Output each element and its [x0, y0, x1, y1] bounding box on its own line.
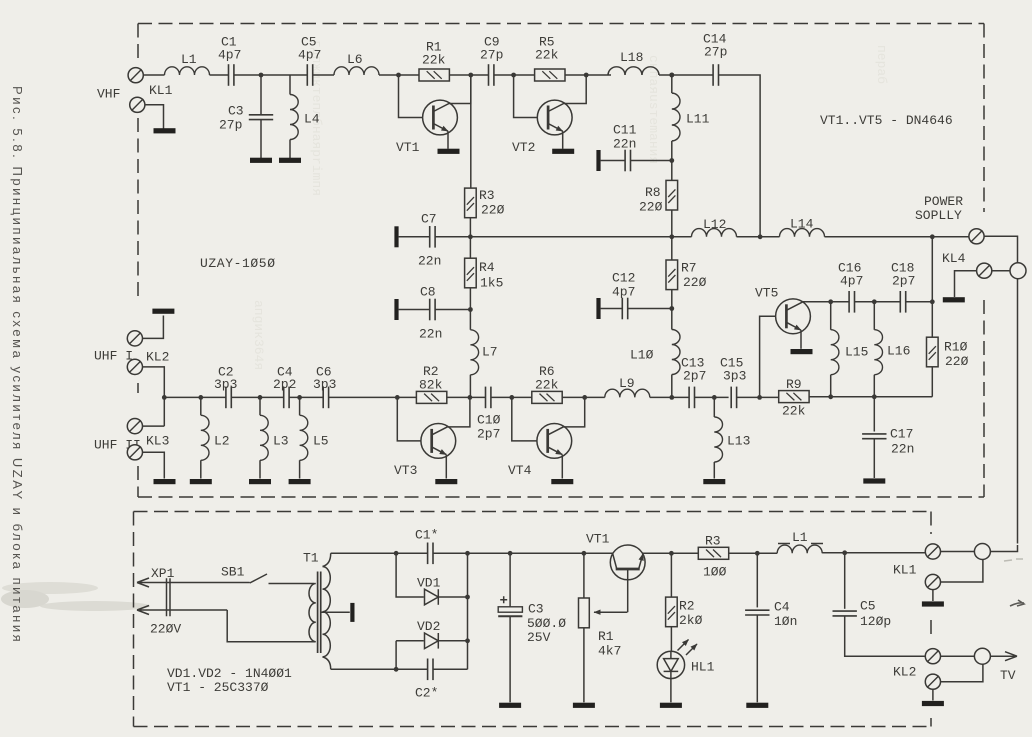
wire L3 leads — [259, 397, 261, 478]
svg-text:22Ø: 22Ø — [481, 203, 505, 218]
wire L4 to ground — [289, 140, 291, 159]
bleed-through ghost text artifacts — [251, 40, 889, 370]
svg-text:L1: L1 — [792, 530, 808, 545]
capacitor C4 10n shunt — [745, 610, 769, 615]
node bridge left top — [394, 551, 399, 556]
svg-text:1ØØ: 1ØØ — [703, 565, 727, 580]
svg-text:UZAY-1Ø5Ø: UZAY-1Ø5Ø — [200, 256, 276, 271]
svg-text:C11: C11 — [613, 123, 637, 138]
node mid rail R3/R4 — [468, 234, 473, 239]
svg-text:VT1: VT1 — [586, 532, 610, 547]
wire bar to C12 — [601, 308, 623, 310]
potentiometer R1 4k7 — [579, 598, 590, 628]
svg-text:R3: R3 — [479, 188, 495, 203]
node L15 bottom — [828, 394, 833, 399]
svg-text:VHF: VHF — [97, 87, 120, 102]
wire C5 down to KL2 row — [845, 616, 925, 656]
T1 secondary bottom lead — [323, 657, 331, 669]
svg-text:22Ø: 22Ø — [945, 354, 969, 369]
wire VT5 base — [760, 316, 776, 397]
connector KL1 pin1 — [925, 544, 940, 559]
inductor L6 — [334, 67, 379, 75]
switch SB1 blade — [250, 574, 267, 583]
plug XP1 body bars — [167, 578, 171, 616]
svg-text:2p2: 2p2 — [273, 377, 296, 392]
wire VT4 emitter — [548, 447, 563, 455]
wire KL1-1 to plug — [941, 551, 975, 553]
svg-text:KL1: KL1 — [149, 83, 173, 98]
wire KL2-2 to ground — [932, 689, 934, 700]
plug circle at KL4 — [1010, 263, 1026, 279]
wire L10 leads — [671, 309, 673, 398]
node R1 — [582, 551, 587, 556]
resistor R4 1k5 — [465, 258, 477, 288]
connector KL4 pin1 — [969, 229, 984, 244]
svg-text:SOPLLY: SOPLLY — [915, 208, 962, 223]
inductor L1 — [165, 67, 210, 75]
capacitor C1* — [428, 543, 433, 565]
inductor L1 (PS) — [777, 545, 822, 553]
resistor R2 82k — [416, 391, 446, 403]
svg-text:12Øp: 12Øp — [860, 614, 891, 629]
ground L2 — [190, 479, 212, 484]
connector KL2 pin2 — [127, 359, 142, 374]
inductor L9 — [605, 389, 650, 397]
wire VT3 collector — [432, 397, 470, 435]
inductor L4 — [290, 95, 298, 140]
capacitor C10 2p7 — [486, 387, 491, 409]
resistor R2 2k0 — [666, 597, 678, 627]
connector KL2 pin1 — [925, 649, 940, 664]
svg-text:KL4: KL4 — [942, 251, 966, 266]
node C8/L7 — [468, 307, 473, 312]
node C5 — [842, 550, 847, 555]
capacitor C18 2p7 — [900, 291, 905, 313]
wire left column to VD1 row — [396, 553, 424, 597]
svg-text:22Ø: 22Ø — [683, 275, 707, 290]
wire L18 to C14 — [659, 74, 713, 76]
wire plug to right edge riser — [990, 545, 1017, 552]
wire HL1 to ground — [670, 679, 672, 703]
svg-text:VT1 - 25C337Ø: VT1 - 25C337Ø — [167, 680, 269, 695]
svg-text:VT3: VT3 — [394, 463, 417, 478]
wire R10 column — [931, 237, 933, 397]
capacitor C8 22n — [430, 299, 435, 321]
wire L15 leads — [830, 302, 832, 397]
svg-text:2p7: 2p7 — [477, 427, 500, 442]
node bridge left bottom — [394, 667, 399, 672]
svg-text:KL3: KL3 — [146, 434, 169, 449]
wire VD1 to right column — [438, 596, 467, 598]
resistor R1 22k — [419, 69, 449, 81]
svg-text:C4: C4 — [774, 600, 790, 615]
terminal bar C12 — [596, 298, 600, 319]
wire bar to C11 — [601, 160, 626, 162]
svg-text:22k: 22k — [535, 48, 559, 63]
node R2/L7/VT3 collector — [468, 395, 473, 400]
wire KL2-2 up to plug — [941, 664, 983, 681]
svg-text:KL2: KL2 — [146, 350, 169, 365]
svg-text:L16: L16 — [887, 344, 910, 359]
mid rail L14 to KL4 — [825, 236, 969, 238]
wire KL3-1 — [143, 425, 165, 427]
wire KL2-2 to rail / KL3-1 riser — [143, 367, 165, 426]
ground KL1-2 — [154, 128, 176, 133]
capacitor C2 3p3 — [226, 387, 231, 409]
ground KL3-2 — [154, 479, 176, 484]
inductor L5 — [300, 415, 308, 460]
wire R8 leads — [671, 161, 673, 237]
wire SB1 to T1 primary — [269, 583, 315, 585]
node C11/L11/R8 — [669, 158, 674, 163]
node right column VD2 — [465, 638, 470, 643]
wire KL1-1 to L1 — [143, 74, 164, 76]
ground KL2-1 (above) — [152, 309, 174, 314]
scan dashes right of KL1 — [1004, 559, 1023, 561]
svg-text:4p7: 4p7 — [298, 48, 321, 63]
node C18/R10 — [930, 299, 935, 304]
connector KL1 pin1 VHF — [128, 68, 143, 83]
connector KL3 pin1 UHF II — [127, 419, 142, 434]
T1 secondary winding — [323, 567, 331, 657]
capacitor C1 4p7 — [229, 64, 234, 86]
svg-text:POWER: POWER — [924, 194, 963, 209]
wire R5 to L18 — [565, 74, 611, 76]
amplifier block dashed border top — [138, 23, 984, 25]
svg-text:Рис. 5.8. Принципиальная схема: Рис. 5.8. Принципиальная схема усилителя… — [10, 86, 25, 644]
wire VT1 collector diag — [613, 553, 617, 569]
node VT3 base — [395, 395, 400, 400]
wire R2 to HL1 — [670, 627, 672, 652]
power block dashed border left — [133, 512, 135, 727]
svg-text:27p: 27p — [480, 48, 503, 63]
svg-text:R1: R1 — [598, 629, 614, 644]
wire VT3 emitter — [432, 447, 447, 455]
wire VT5 emitter — [786, 322, 801, 330]
wire VT2 emitter — [548, 124, 563, 132]
wire KL2-1 to plug — [941, 655, 975, 657]
T1 core — [318, 572, 321, 654]
svg-text:82k: 82k — [419, 378, 443, 393]
svg-text:4p7: 4p7 — [840, 274, 863, 289]
capacitor C3 27p shunt — [249, 115, 273, 120]
node L3 — [258, 395, 263, 400]
wire C8 to R4 node — [435, 309, 470, 311]
transistor VT4 — [537, 424, 572, 459]
wire KL1-2 to ground — [145, 105, 164, 129]
T1 primary winding — [309, 584, 316, 642]
wire bar to C7 — [399, 236, 430, 238]
wire L4 branch — [289, 75, 291, 95]
node right column top — [465, 551, 470, 556]
svg-text:L7: L7 — [482, 345, 498, 360]
node L10 bottom — [669, 395, 674, 400]
svg-text:3p3: 3p3 — [214, 377, 237, 392]
ground VT4 — [551, 479, 573, 484]
rail C2 to C4 — [231, 396, 283, 398]
capacitor C3 top plate — [498, 607, 522, 612]
svg-text:22k: 22k — [422, 53, 446, 68]
wire R1 to C9 — [449, 74, 488, 76]
ground C17 — [863, 478, 885, 483]
svg-text:C12: C12 — [612, 271, 635, 286]
inductor L14 — [780, 229, 825, 237]
svg-text:C17: C17 — [890, 427, 913, 442]
ground C4 — [746, 703, 768, 708]
wire VT4 collector — [548, 397, 585, 435]
svg-text:VT4: VT4 — [508, 463, 532, 478]
svg-text:L18: L18 — [620, 50, 643, 65]
svg-text:C5: C5 — [860, 599, 876, 614]
svg-text:27p: 27p — [704, 45, 727, 60]
resistor R7 220 — [666, 260, 678, 290]
svg-text:C7: C7 — [421, 212, 437, 227]
PS bottom rail — [331, 668, 468, 670]
resistor R3 100 — [698, 547, 728, 559]
wire VT4 base — [512, 397, 537, 441]
svg-text:L14: L14 — [790, 217, 814, 232]
svg-text:VT1: VT1 — [396, 140, 420, 155]
capacitor C12 4p7 — [622, 298, 627, 320]
capacitor C7 22n — [430, 226, 435, 248]
svg-text:R9: R9 — [786, 377, 802, 392]
wire R3 to mid rail — [469, 218, 471, 237]
svg-text:C3: C3 — [228, 104, 244, 119]
inductor L16 — [874, 330, 882, 375]
node R10 top — [930, 234, 935, 239]
svg-text:C8: C8 — [420, 285, 436, 300]
svg-text:1Øn: 1Øn — [774, 614, 797, 629]
wire prong2 to T1 primary bottom — [227, 610, 315, 642]
svg-text:L12: L12 — [703, 217, 726, 232]
ground VT1 — [438, 149, 460, 154]
collector row C16/C18 — [831, 301, 933, 303]
diode VD1 — [425, 589, 439, 605]
svg-text:27p: 27p — [219, 118, 242, 133]
svg-text:22k: 22k — [535, 378, 559, 393]
wire C4 top lead — [756, 553, 758, 607]
node VT5 base riser — [757, 395, 762, 400]
svg-text:22n: 22n — [418, 254, 441, 269]
T1 secondary top lead — [323, 553, 331, 566]
wire C12 to node — [628, 308, 672, 310]
svg-text:VT2: VT2 — [512, 140, 535, 155]
wire C3 top lead — [509, 553, 511, 606]
inductor L2 — [201, 415, 209, 460]
wire R1 top lead — [583, 553, 585, 598]
svg-text:R1Ø: R1Ø — [944, 340, 968, 355]
ground VT3 — [435, 479, 457, 484]
svg-text:4p7: 4p7 — [612, 285, 635, 300]
svg-text:апgик364я: апgик364я — [251, 300, 266, 370]
transistor VT3 — [421, 424, 456, 459]
wire C1 to C5 — [234, 74, 307, 76]
svg-text:XP1: XP1 — [151, 566, 175, 581]
wire R2 top lead — [670, 553, 672, 597]
svg-text:HL1: HL1 — [691, 660, 715, 675]
inductor L10 — [672, 330, 680, 375]
svg-text:L4: L4 — [304, 112, 320, 127]
svg-text:2p7: 2p7 — [892, 274, 915, 289]
svg-text:L1Ø: L1Ø — [630, 348, 654, 363]
wire L9 to C13 — [650, 396, 689, 398]
node R1/VT1 collector — [468, 73, 473, 78]
inductor L12 — [692, 229, 737, 237]
node L16 bottom / C17 — [872, 394, 877, 399]
ground VT5 — [791, 349, 813, 354]
transistor VT2 — [537, 100, 572, 135]
node L13 — [712, 395, 717, 400]
UHF rail left segment — [164, 396, 226, 398]
wire C14 down to mid rail — [719, 75, 761, 237]
terminal bar C11 — [596, 150, 600, 171]
node L2 — [198, 395, 203, 400]
node C4 — [755, 551, 760, 556]
ground L13 — [703, 479, 725, 484]
wire L6 to R1 — [379, 74, 419, 76]
resistor R10 220 — [927, 337, 939, 367]
amplifier block dashed border right — [983, 24, 985, 498]
connector KL2 pin2 — [925, 674, 940, 689]
wire VT1 emitter diag with arrow — [639, 554, 643, 569]
power block dashed border top — [134, 511, 932, 513]
plug XP1 prong1 with arrow — [137, 578, 250, 587]
wire L13 leads — [713, 397, 715, 478]
capacitor C15 3p3 — [731, 387, 736, 409]
wire C5 top lead — [844, 553, 846, 609]
T1 center tap wire — [321, 611, 350, 613]
node L5 — [297, 395, 302, 400]
inductor L3 — [260, 415, 268, 460]
node after C1 — [259, 73, 264, 78]
wire L16 leads — [873, 302, 875, 397]
svg-text:R4: R4 — [479, 260, 495, 275]
wire VT2 collector — [548, 75, 586, 112]
svg-text:SB1: SB1 — [221, 565, 245, 580]
ground L5 — [289, 479, 311, 484]
svg-text:C1*: C1* — [415, 528, 438, 543]
wire C4 to ground — [756, 615, 758, 702]
wire KL4-2 to ground — [955, 271, 977, 297]
svg-text:22Ø: 22Ø — [639, 200, 663, 215]
svg-text:KL1: KL1 — [893, 563, 917, 578]
power block dashed border right — [930, 512, 932, 727]
capacitor C13 2p7 — [689, 387, 694, 409]
svg-text:2kØ: 2kØ — [679, 613, 703, 628]
svg-text:22n: 22n — [613, 137, 636, 152]
svg-text:L2: L2 — [214, 434, 230, 449]
svg-text:VT5: VT5 — [755, 286, 778, 301]
wire L12 to L14 — [737, 236, 780, 238]
node VT1 base — [396, 73, 401, 78]
wire KL3-2 to ground — [143, 452, 165, 478]
capacitor C2* — [428, 659, 433, 681]
LED HL1 — [657, 651, 684, 678]
PS rail C1* to VT1 — [433, 552, 613, 554]
wire C17 branch — [873, 397, 875, 432]
capacitor C5 4p7 — [307, 64, 312, 86]
resistor R6 22k — [532, 391, 562, 403]
wire VT1 emitter — [433, 124, 448, 132]
wire VT1 base down — [627, 569, 629, 612]
diode VD2 — [425, 633, 439, 649]
wire L2 leads — [200, 397, 202, 478]
PS top rail T1 to C1* — [331, 552, 428, 554]
svg-text:UHF I: UHF I — [94, 349, 133, 364]
svg-text:C2*: C2* — [415, 686, 438, 701]
wire left column VD2 to bottom rail — [395, 641, 397, 670]
inductor L18 — [608, 67, 659, 75]
power block dashed border bottom — [134, 726, 932, 728]
svg-text:C1Ø: C1Ø — [477, 413, 501, 428]
node C12/R7/L10 — [669, 306, 674, 311]
wire TV arrow — [990, 652, 1017, 661]
node mid rail R8/R7 — [669, 234, 674, 239]
wire KL4-1 to right edge and down — [984, 236, 1017, 543]
svg-text:VD1: VD1 — [417, 576, 441, 591]
svg-text:L5: L5 — [313, 434, 329, 449]
resistor R9 22k — [779, 391, 809, 403]
svg-text:4p7: 4p7 — [218, 48, 241, 63]
wire C10 to R6 — [491, 396, 532, 398]
svg-text:4k7: 4k7 — [598, 644, 621, 659]
wire VT1 collector — [433, 75, 470, 112]
capacitor C4 2p2 — [284, 387, 289, 409]
wire C5 to L6 — [313, 74, 334, 76]
svg-text:C3: C3 — [528, 602, 544, 617]
node C3 — [508, 551, 513, 556]
node L18/L11 — [669, 73, 674, 78]
ground L3 — [249, 479, 271, 484]
R1 wiper arrow from VT1 base — [594, 611, 627, 613]
wire KL1-2 up to plug — [941, 560, 983, 582]
svg-text:L15: L15 — [845, 345, 868, 360]
wire C17 to ground — [873, 439, 875, 478]
capacitor C14 27p — [713, 64, 718, 86]
ground L4 — [279, 158, 301, 163]
rail C6 to R2 — [329, 396, 417, 398]
wire C13 to C15 — [695, 396, 729, 398]
svg-text:25V: 25V — [527, 630, 551, 645]
wire bar to C8 — [399, 309, 430, 311]
svg-text:L1: L1 — [181, 52, 197, 67]
plug XP1 prong2 with arrow — [137, 606, 227, 615]
inductor L7 — [470, 330, 478, 375]
terminal bar C8 — [394, 299, 398, 320]
resistor R5 22k — [535, 69, 565, 81]
wire C11 to node — [631, 160, 672, 162]
node R6/VT4 collector — [582, 395, 587, 400]
wire plug to KL4-2 — [992, 270, 1010, 272]
ground KL4-2 — [943, 297, 965, 302]
transistor VT5 — [776, 299, 811, 334]
ground C3 — [499, 703, 521, 708]
wire L7 leads — [469, 310, 471, 398]
PS rail L1 to KL1 — [822, 552, 925, 554]
svg-text:22k: 22k — [782, 404, 806, 419]
capacitor C3 bottom plate — [498, 615, 522, 617]
svg-text:L3: L3 — [273, 434, 289, 449]
plug circle KL2 — [974, 648, 990, 664]
ground HL1 — [660, 703, 682, 708]
capacitor C5 120p shunt — [833, 611, 857, 616]
wire C9 to R5 — [494, 74, 535, 76]
svg-text:VT1..VT5 - DN4646: VT1..VT5 - DN4646 — [820, 113, 953, 128]
wire L11 leads — [671, 75, 673, 161]
svg-text:R7: R7 — [681, 261, 697, 276]
svg-text:L11: L11 — [686, 112, 710, 127]
svg-text:5ØØ.Ø: 5ØØ.Ø — [527, 616, 566, 631]
